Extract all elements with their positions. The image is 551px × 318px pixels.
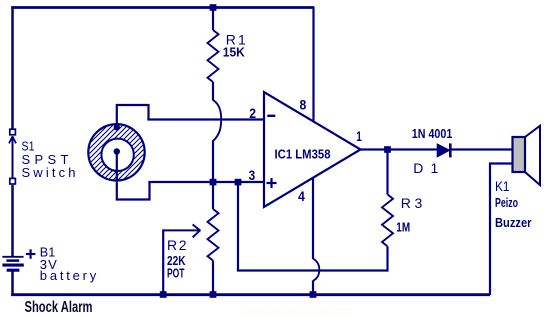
svg-text:2: 2 <box>249 105 256 121</box>
op-amp plus input sign <box>267 178 277 188</box>
wire pin4 upper <box>312 178 314 260</box>
wire switch to battery <box>11 185 14 257</box>
sensor center electrode dot <box>114 148 120 154</box>
wire pin4 lower <box>312 281 314 296</box>
buzzer K1 speaker <box>513 126 541 185</box>
wire hop pin4 over feedback wire <box>313 259 319 282</box>
label B1 3V battery <box>40 245 97 283</box>
wire pin2 horizontal <box>147 118 264 120</box>
wire feedback horizontal <box>237 269 388 271</box>
wire buzzer return <box>490 164 513 296</box>
op-amp U1 triangle <box>264 92 361 207</box>
potentiometer R2 <box>208 209 219 295</box>
svg-text:8: 8 <box>300 96 307 112</box>
label S1 SPST Switch <box>22 139 76 181</box>
label R3 1M <box>396 195 422 235</box>
wire hop R1 over pin2 wire <box>213 100 221 141</box>
junction dot R2 on bottom rail <box>210 291 217 298</box>
resistor R3 <box>382 150 393 247</box>
label R1 15K <box>223 31 246 59</box>
junction dot pin4 ground <box>310 291 317 298</box>
svg-text:1: 1 <box>356 128 362 144</box>
svg-text:Peizo: Peizo <box>495 195 518 210</box>
svg-text:3: 3 <box>249 167 256 183</box>
wire pin8 <box>312 7 314 122</box>
op-amp minus input sign <box>267 115 275 117</box>
label K1 Peizo Buzzer <box>495 178 532 230</box>
svg-text:Shock Alarm: Shock Alarm <box>25 299 93 316</box>
wire top rail <box>11 6 313 9</box>
svg-text:1N 4001: 1N 4001 <box>412 126 453 141</box>
switch S1 <box>9 129 16 184</box>
diode D1 <box>437 143 450 157</box>
sensor top electrode dot <box>114 124 120 130</box>
junction dot node B <box>235 179 242 186</box>
wire diode to buzzer <box>450 148 513 150</box>
wire pin3 horizontal <box>148 181 264 183</box>
svg-text:1M: 1M <box>396 220 410 235</box>
wire R1 to node A <box>212 141 214 184</box>
svg-text:IC1 LM358: IC1 LM358 <box>275 146 331 161</box>
wire left rail upper <box>11 6 14 129</box>
junction dot output node <box>384 146 391 153</box>
wire sensor center to pin3 <box>117 152 150 200</box>
junction dot node A <box>210 179 217 186</box>
svg-text:Switch: Switch <box>22 165 76 180</box>
svg-text:4: 4 <box>298 188 305 204</box>
svg-text:15K: 15K <box>223 45 246 60</box>
svg-text:POT: POT <box>167 265 185 280</box>
svg-text:Buzzer: Buzzer <box>495 215 532 230</box>
junction dot R2 wiper on bottom rail <box>160 291 167 298</box>
battery plus sign <box>26 249 36 258</box>
svg-text:R2: R2 <box>167 237 187 253</box>
wire node A to R2 <box>212 182 214 209</box>
wire output <box>360 148 438 150</box>
junction dot top rail R1 <box>210 4 217 11</box>
wire bottom rail <box>11 293 490 296</box>
wire battery to bottom rail <box>11 270 14 296</box>
shock sensor disc hatched <box>66 82 146 267</box>
svg-text:www.circuitstoday.com . . .: www.circuitstoday.com . . . <box>242 305 372 317</box>
svg-text:K1: K1 <box>495 178 510 194</box>
resistor R1 <box>208 7 219 101</box>
potentiometer R2 wiper arrow <box>163 224 200 295</box>
battery B1 <box>2 257 23 270</box>
label R2 22K POT <box>167 237 187 280</box>
wire R3 bottom <box>386 246 388 271</box>
wire sensor top to pin2 <box>117 105 149 127</box>
wire node B down <box>237 182 239 271</box>
